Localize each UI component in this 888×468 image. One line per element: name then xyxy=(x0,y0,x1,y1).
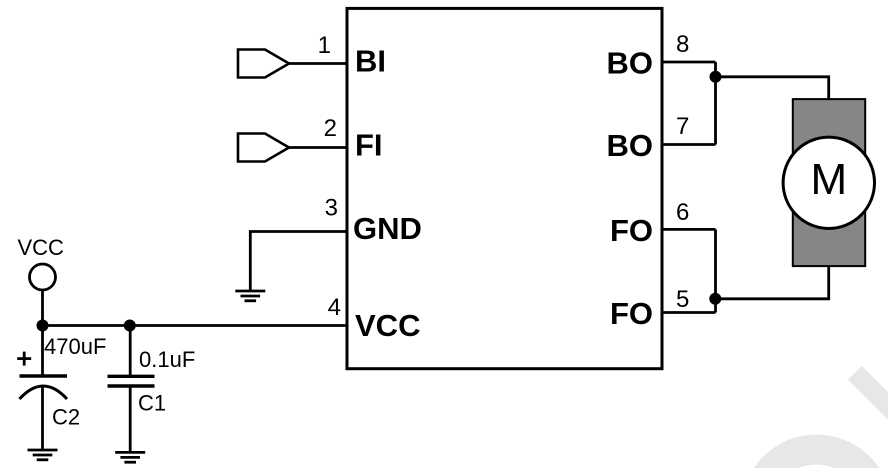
svg-text:0.1uF: 0.1uF xyxy=(139,347,195,372)
IC U1 body xyxy=(347,8,662,368)
svg-text:C2: C2 xyxy=(52,405,80,430)
ground symbol (C1) xyxy=(115,452,145,462)
pin 6 stub xyxy=(662,228,716,231)
motor M1 body (gray) xyxy=(793,99,865,266)
pin 5 stub xyxy=(662,311,716,314)
junction dot at VCC/C2 xyxy=(37,320,49,332)
wire rail to plate xyxy=(41,326,44,377)
wire plate to ground xyxy=(41,387,44,450)
watermark diagonal bar xyxy=(855,373,888,458)
junction dot FO xyxy=(709,293,721,305)
svg-text:7: 7 xyxy=(676,113,689,140)
ground symbol (pin 3) xyxy=(235,291,265,301)
svg-text:M: M xyxy=(810,155,847,204)
wire pin4 VCC rail xyxy=(43,324,348,327)
plus sign xyxy=(17,357,31,360)
wire FO junction to motor bottom xyxy=(716,266,829,299)
svg-text:VCC: VCC xyxy=(355,308,420,343)
svg-text:2: 2 xyxy=(324,115,337,142)
capacitor C1 (0.1uF) xyxy=(108,326,196,463)
junction dot BO xyxy=(710,71,722,83)
svg-text:VCC: VCC xyxy=(18,235,65,260)
svg-text:6: 6 xyxy=(676,199,689,226)
svg-text:C1: C1 xyxy=(138,391,166,416)
junction dot at C1 tap xyxy=(124,320,136,332)
svg-text:FO: FO xyxy=(610,296,653,331)
capacitor C2 (470uF polarized) xyxy=(17,326,106,460)
svg-text:470uF: 470uF xyxy=(44,334,106,359)
wire pin3 GND xyxy=(250,232,347,292)
wire pin1 to connector xyxy=(289,62,347,65)
ground symbol (C2) xyxy=(28,450,58,460)
pin 8 stub xyxy=(662,61,716,64)
wire BO junction to motor top xyxy=(716,77,829,99)
top plate xyxy=(108,375,155,378)
watermark ring xyxy=(741,435,888,468)
vertical wire pin6-pin5 xyxy=(714,229,717,312)
svg-text:GND: GND xyxy=(353,211,422,246)
svg-text:FI: FI xyxy=(355,128,383,163)
connector J2 (FI input flag) xyxy=(238,134,289,162)
connector J1 (BI input flag) xyxy=(238,50,289,78)
svg-text:FO: FO xyxy=(610,213,653,248)
wire rail to plate xyxy=(129,326,132,377)
svg-text:4: 4 xyxy=(328,294,341,321)
svg-text:1: 1 xyxy=(318,32,331,59)
wire VCC circle to rail xyxy=(41,290,44,326)
svg-text:8: 8 xyxy=(676,31,689,58)
top plate xyxy=(20,374,68,377)
motor M1 circle xyxy=(783,137,874,228)
bottom plate xyxy=(108,384,155,387)
svg-text:3: 3 xyxy=(325,195,338,222)
svg-text:5: 5 xyxy=(676,286,689,313)
svg-text:BI: BI xyxy=(355,44,386,79)
svg-text:BO: BO xyxy=(607,46,654,81)
pin 7 stub xyxy=(662,143,716,146)
wire pin2 to connector xyxy=(289,146,347,149)
VCC terminal circle xyxy=(30,264,56,290)
wire plate to ground xyxy=(129,386,132,452)
vertical wire pin8-pin7 xyxy=(714,62,717,145)
svg-text:BO: BO xyxy=(607,128,654,163)
curved bottom plate xyxy=(20,386,68,399)
